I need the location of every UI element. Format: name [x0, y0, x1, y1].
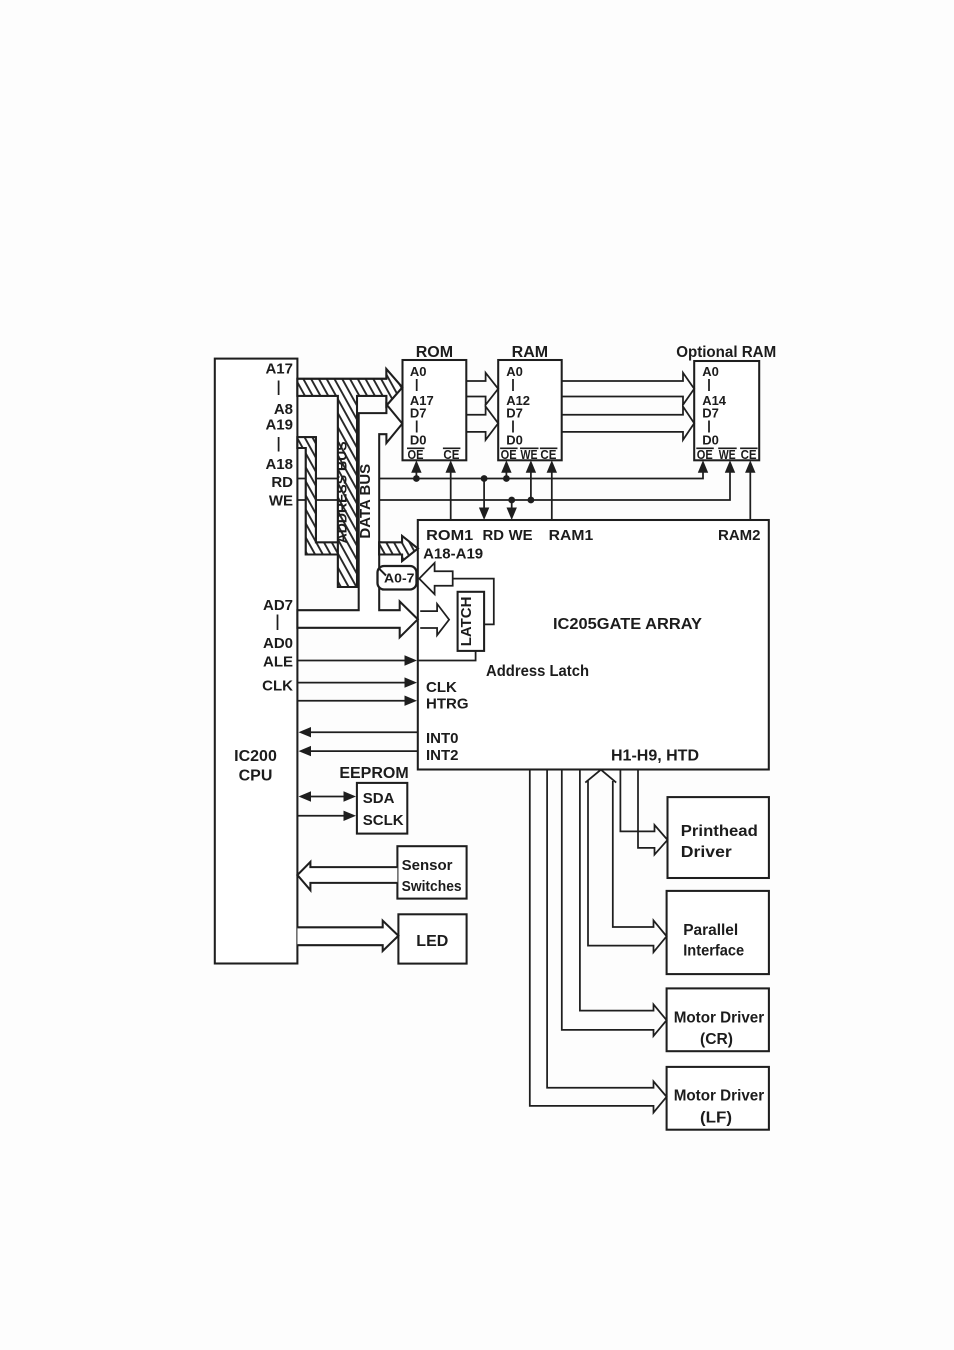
- svg-text:RAM1: RAM1: [549, 527, 594, 544]
- svg-text:A19: A19: [265, 417, 293, 434]
- svg-text:CE: CE: [741, 447, 757, 462]
- svg-text:A0: A0: [410, 364, 427, 379]
- svg-text:AD0: AD0: [263, 635, 293, 652]
- svg-text:CLK: CLK: [426, 679, 457, 696]
- svg-text:WE: WE: [719, 447, 736, 462]
- svg-text:D0: D0: [410, 433, 427, 448]
- svg-text:OE: OE: [408, 447, 424, 462]
- svg-text:SCLK: SCLK: [363, 812, 404, 829]
- svg-text:WE: WE: [269, 493, 293, 510]
- svg-text:CE: CE: [540, 447, 556, 462]
- svg-text:H1-H9, HTD: H1-H9, HTD: [611, 748, 699, 765]
- svg-text:IC200: IC200: [234, 748, 277, 765]
- svg-text:OE: OE: [501, 447, 517, 462]
- svg-text:A0: A0: [506, 364, 523, 379]
- svg-text:ALE: ALE: [263, 654, 293, 671]
- svg-text:A8: A8: [274, 401, 293, 418]
- svg-text:Printhead: Printhead: [681, 823, 758, 840]
- svg-text:SDA: SDA: [363, 790, 395, 807]
- svg-text:RAM: RAM: [512, 344, 548, 361]
- svg-text:INT2: INT2: [426, 747, 459, 764]
- svg-text:RAM2: RAM2: [718, 527, 761, 544]
- svg-text:Parallel: Parallel: [683, 922, 738, 939]
- svg-text:A18: A18: [265, 456, 293, 473]
- svg-text:WE: WE: [521, 447, 538, 462]
- svg-text:D7: D7: [506, 406, 523, 421]
- svg-text:LATCH: LATCH: [458, 597, 475, 647]
- svg-text:CPU: CPU: [239, 768, 273, 785]
- svg-text:DATA BUS: DATA BUS: [357, 464, 374, 539]
- svg-text:IC205GATE ARRAY: IC205GATE ARRAY: [553, 616, 702, 633]
- svg-text:LED: LED: [416, 933, 448, 950]
- svg-text:(CR): (CR): [700, 1031, 733, 1048]
- svg-text:(LF): (LF): [700, 1110, 732, 1127]
- svg-text:EEPROM: EEPROM: [339, 765, 408, 782]
- svg-text:HTRG: HTRG: [426, 696, 469, 713]
- svg-text:WE: WE: [509, 527, 533, 544]
- svg-text:A18-A19: A18-A19: [423, 546, 483, 563]
- svg-text:RD: RD: [483, 527, 505, 544]
- svg-text:Sensor: Sensor: [402, 857, 453, 874]
- svg-text:Driver: Driver: [681, 844, 732, 861]
- svg-text:A0-7: A0-7: [384, 570, 415, 585]
- svg-text:AD7: AD7: [263, 597, 293, 614]
- svg-text:ROM: ROM: [416, 344, 453, 361]
- svg-text:ROM1: ROM1: [426, 527, 473, 544]
- svg-text:ADDRESS BUS: ADDRESS BUS: [334, 441, 350, 543]
- svg-text:Switches: Switches: [402, 878, 462, 895]
- svg-text:Address Latch: Address Latch: [486, 663, 589, 680]
- svg-text:Optional RAM: Optional RAM: [676, 344, 776, 361]
- svg-text:CE: CE: [443, 447, 459, 462]
- svg-text:D0: D0: [506, 433, 523, 448]
- svg-text:CLK: CLK: [262, 678, 293, 695]
- svg-text:D0: D0: [702, 433, 719, 448]
- svg-text:D7: D7: [410, 406, 427, 421]
- svg-text:Motor Driver: Motor Driver: [674, 1010, 765, 1027]
- svg-text:INT0: INT0: [426, 730, 459, 747]
- svg-text:D7: D7: [702, 406, 719, 421]
- svg-text:OE: OE: [697, 447, 713, 462]
- svg-text:Motor Driver: Motor Driver: [674, 1088, 765, 1105]
- svg-text:A0: A0: [702, 364, 719, 379]
- svg-text:Interface: Interface: [683, 943, 744, 960]
- svg-text:A17: A17: [265, 361, 293, 378]
- svg-text:RD: RD: [271, 474, 293, 491]
